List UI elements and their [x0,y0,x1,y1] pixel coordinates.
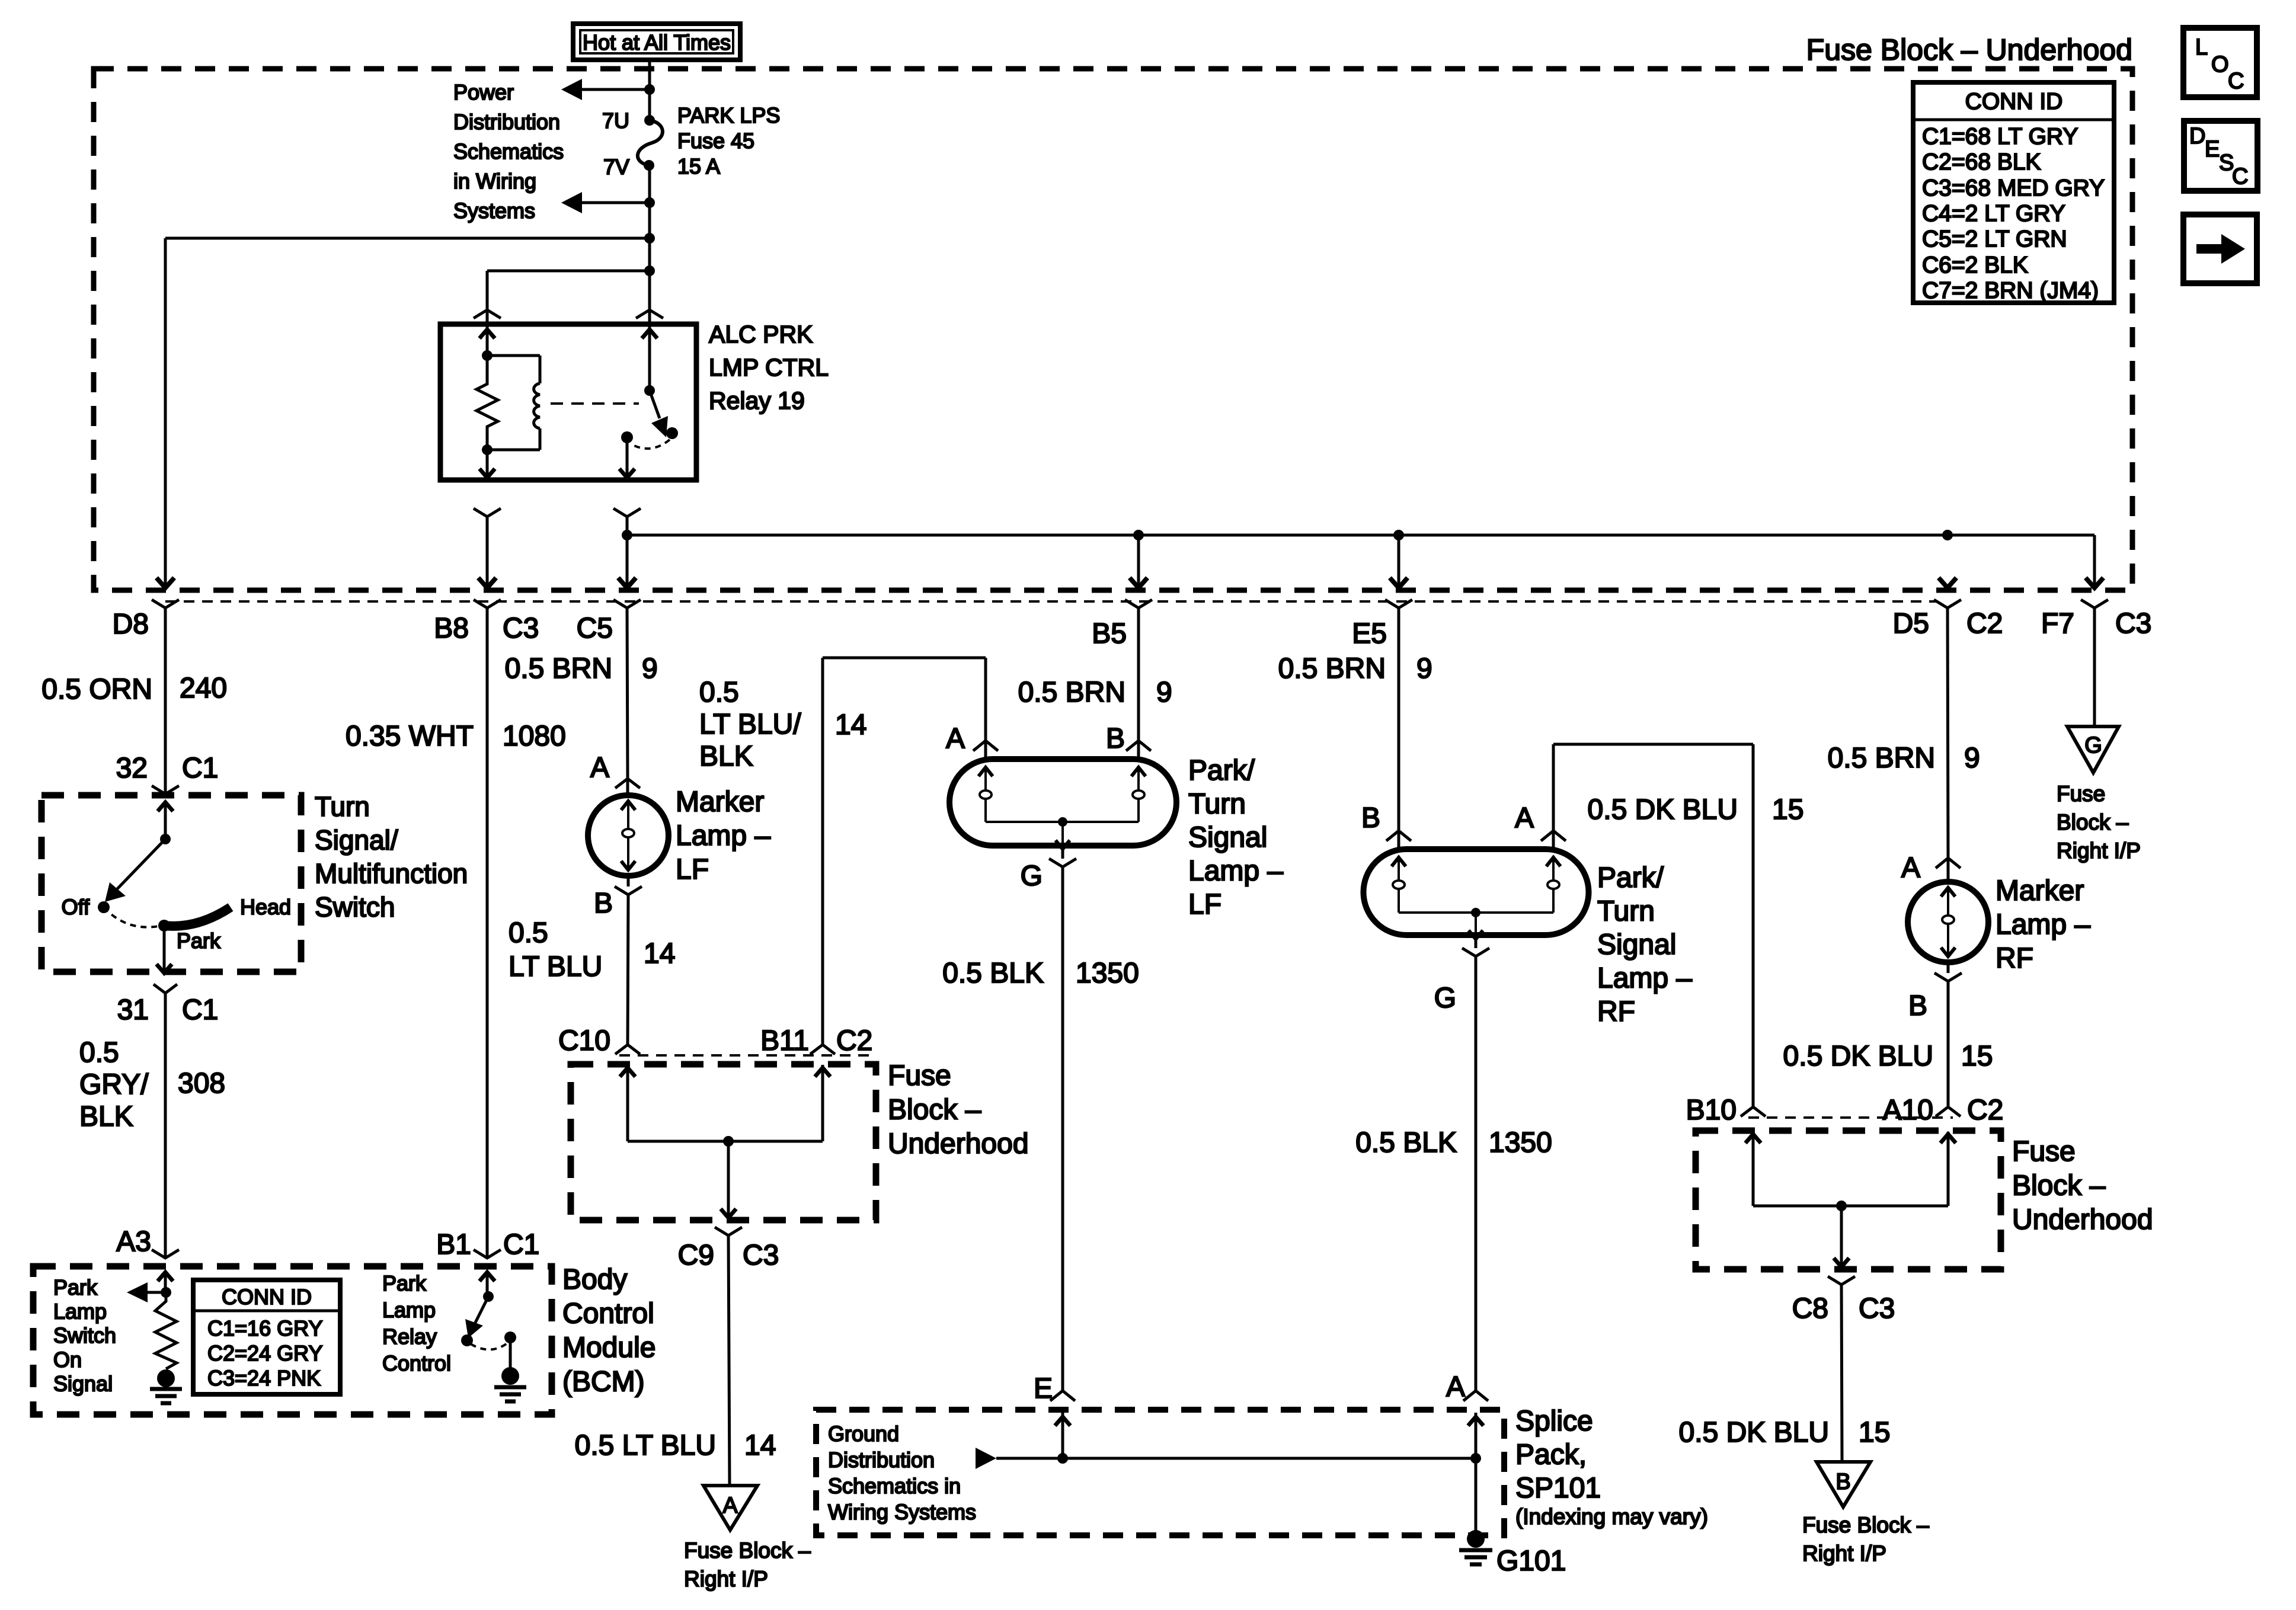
svg-text:C2: C2 [1967,1094,2003,1126]
conn id table (underhood) box [1913,82,2114,303]
contact arc - Park-Head (thick) [164,907,231,926]
svg-text:Lamp –: Lamp – [1188,856,1283,887]
svg-text:Right I/P: Right I/P [684,1567,768,1591]
pin arrow - splice A (up, open) [1468,1417,1483,1426]
svg-text:C2: C2 [1966,608,2003,639]
wire - 0.5 LT BLU 14 (marker LF to C10) [628,895,628,1045]
svg-text:C2=24 GRY: C2=24 GRY [207,1341,322,1365]
wire - park/turn RF A stub [1552,831,1555,850]
turn signal / multifunction switch dashed box [41,795,301,972]
svg-text:C3: C3 [503,613,539,644]
border arrow - E5 (down, open) [1390,578,1408,588]
relay ALC PRK LMP CTRL box [440,324,696,480]
connector chevron - splice pin A [1463,1391,1488,1401]
pin arrow - switch feed (up, open) [158,802,173,811]
svg-text:Lamp –: Lamp – [676,820,770,852]
svg-text:Module: Module [562,1332,655,1363]
node - bus at B5 wire [1133,530,1144,540]
node - bus at E5 wire [1393,530,1404,540]
svg-text:0.5 BRN: 0.5 BRN [505,653,612,684]
node - relay coil branch junction [644,265,655,276]
svg-text:C1: C1 [182,994,218,1026]
svg-text:Fuse Block –: Fuse Block – [1802,1513,1929,1537]
svg-text:C1=68 LT GRY: C1=68 LT GRY [1922,124,2078,149]
connector chevron - below relay left [474,508,501,517]
body control module dashed box [33,1266,552,1414]
svg-text:0.5: 0.5 [699,677,739,708]
svg-text:Power: Power [453,80,514,104]
svg-text:PARK LPS: PARK LPS [677,103,780,127]
wire - horizontal branch to D8 drop [165,237,650,240]
svg-text:C1: C1 [182,753,218,784]
svg-text:0.5 BLK: 0.5 BLK [1355,1127,1457,1158]
svg-text:C3: C3 [743,1240,779,1271]
connector chevron - BCM pin A3 [152,1250,179,1258]
connector chevron - B8 below border [474,600,501,608]
ground - park lamp relay control ground [501,1367,519,1385]
border arrow - D5 (down, open) [1939,578,1956,588]
wire - coil branch down [539,356,542,383]
svg-text:E: E [2205,137,2220,162]
svg-text:0.5 DK BLU: 0.5 DK BLU [1588,794,1738,825]
svg-text:0.5 LT BLU: 0.5 LT BLU [575,1430,716,1461]
connector chevron - marker LF pin A [615,779,640,788]
svg-text:Fuse 45: Fuse 45 [677,129,754,153]
svg-text:14: 14 [644,938,675,969]
svg-text:GRY/: GRY/ [79,1069,149,1100]
svg-text:C2=68 BLK: C2=68 BLK [1922,149,2041,175]
svg-text:F7: F7 [2041,608,2074,639]
svg-text:Marker: Marker [1996,875,2084,907]
svg-text:B8: B8 [434,613,469,644]
svg-text:Schematics in: Schematics in [828,1474,961,1498]
svg-text:Wiring Systems: Wiring Systems [828,1500,976,1524]
svg-text:A: A [946,723,965,754]
svg-text:Hot at All Times: Hot at All Times [583,30,731,55]
wire - 0.5 LT BLU 14 to fuse block right IP [728,1235,730,1484]
svg-text:E: E [1034,1373,1053,1404]
svg-text:0.5 DK BLU: 0.5 DK BLU [1783,1041,1933,1072]
connector chevron - splice pin E [1050,1391,1075,1401]
svg-text:B11: B11 [760,1025,809,1057]
filament - marker RF [1941,888,1955,897]
park/turn signal lamp LF outline [949,759,1176,846]
wire - B5 drop in block [1137,535,1140,585]
connector chevron - park/turn LF pin G [1049,859,1076,867]
wire - 0.5 DK BLU 15 (marker RF to A10) [1947,981,1950,1107]
ground - G101 [1467,1530,1485,1548]
splice pack SP101 dashed box [816,1410,1504,1535]
border arrow - C5 (down, open) [618,578,636,588]
svg-text:Relay: Relay [382,1324,437,1349]
pin arrow - relay switch pin (up, open) [642,329,657,338]
svg-text:Lamp –: Lamp – [1597,963,1692,994]
switch arm - relay contact arm [650,391,660,418]
wire - 0.5 BRN 9 (C5) [627,608,628,779]
svg-text:A: A [1446,1371,1465,1403]
svg-text:Relay 19: Relay 19 [709,387,805,414]
svg-text:Distribution: Distribution [453,110,560,134]
conn id table (BCM) header line [193,1310,340,1313]
svg-text:B10: B10 [1686,1094,1737,1126]
svg-text:14: 14 [835,709,866,741]
svg-text:15: 15 [1859,1417,1890,1448]
dashed arc - driver contact throw [471,1343,508,1350]
connector chevron - park/turn RF pin A [1541,831,1566,841]
svg-text:Park/: Park/ [1597,862,1664,894]
filament - park/turn RF right [1546,857,1560,866]
svg-text:Fuse: Fuse [2057,782,2105,806]
svg-text:E5: E5 [1352,618,1387,649]
svg-text:Distribution: Distribution [828,1448,935,1472]
svg-text:15 A: 15 A [677,154,720,178]
wire - B1 inside BCM [486,1272,489,1297]
dashed arc - relay contact throw [631,440,670,449]
svg-text:A: A [590,752,609,783]
svg-text:Block –: Block – [2057,810,2129,834]
offpage triangle A (fuse block right IP) [703,1486,757,1530]
svg-text:Lamp –: Lamp – [1996,909,2090,940]
svg-text:A10: A10 [1883,1094,1933,1126]
arrow - park lamp switch on signal (left, solid) [127,1282,148,1302]
svg-text:B: B [594,888,613,919]
legend box LOC [2183,28,2257,97]
filament - park/turn LF right [1131,767,1146,776]
node - relay contact left (output) [621,431,633,443]
svg-text:C: C [2228,69,2244,94]
connector chevron - switch pin 31 [154,984,177,993]
connector chevron - relay switch pin (top right) [636,310,663,318]
wire - internal signal arrow shaft [137,1291,166,1294]
wire - splice A inside [1475,1413,1478,1458]
marker lamp LF circle [588,795,669,876]
connector chevron - F7 below border [2081,600,2108,608]
svg-text:Park: Park [53,1275,98,1299]
pin arrow - C10 entry (up, open) [620,1068,635,1077]
svg-text:C1=16 GRY: C1=16 GRY [207,1316,322,1340]
svg-text:ALC PRK: ALC PRK [709,321,813,348]
node - driver contact left [461,1334,473,1346]
ground - BCM park lamp switch ground [157,1369,175,1387]
Hot at All Times box [573,24,740,60]
svg-text:D5: D5 [1893,608,1929,639]
wire - 0.5 LT BLU/BLK 14 riser [984,658,987,741]
svg-text:Pack,: Pack, [1515,1439,1587,1471]
svg-text:C6=2 BLK: C6=2 BLK [1922,252,2028,278]
svg-text:9: 9 [1416,653,1432,684]
wire - F7 to fuse block right IP [2093,608,2096,726]
svg-text:CONN ID: CONN ID [222,1285,312,1309]
wire - marker LF A stub [626,779,629,796]
fuse F45 PARK LPS symbol (S-curve) [638,120,663,165]
wire - middle block internal join [628,1140,823,1143]
fuse block underhood (right) dashed box [1696,1131,2001,1269]
svg-text:Park: Park [382,1271,427,1295]
connector row thin dashed line (connector C2) [165,600,1938,603]
pin arrow - A10 entry (up, open) [1940,1134,1956,1143]
svg-text:Schematics: Schematics [453,139,564,164]
svg-text:C8: C8 [1792,1293,1828,1324]
node - bus at D5 wire [1942,530,1953,540]
wire - park/turn RF internal common [1399,911,1553,914]
svg-text:G: G [1434,982,1456,1014]
svg-text:C7=2 BRN (JM4): C7=2 BRN (JM4) [1922,278,2099,303]
connector chevron - B11 [810,1045,835,1054]
svg-text:Signal: Signal [53,1371,113,1395]
node - D8 branch junction [644,233,655,244]
node - switch contact Off [98,901,110,913]
svg-text:C3: C3 [2115,608,2151,639]
wire - park/turn LF B stub [1137,741,1140,760]
node - power distribution feed 1 [644,84,655,95]
connector chevron - marker LF pin B [615,886,642,895]
wire - 0.5 LT BLU/BLK 14 down run [821,658,824,1045]
svg-text:Signal: Signal [1597,929,1676,961]
wire - marker RF A stub [1947,858,1950,883]
connector chevron - A10 [1936,1107,1961,1116]
connector chevron - park/turn RF pin B [1386,831,1411,841]
svg-text:Block –: Block – [2012,1170,2106,1202]
svg-text:LT BLU: LT BLU [509,951,602,982]
border arrow - D8 (down, open) [156,578,174,588]
svg-text:14: 14 [744,1430,776,1461]
svg-text:CONN ID: CONN ID [1965,89,2063,114]
wire - arrow to power distribution 1 [581,88,650,91]
svg-text:Fuse Block – Underhood: Fuse Block – Underhood [1806,33,2132,66]
svg-text:O: O [2211,52,2229,77]
svg-text:7V: 7V [603,155,629,179]
wire - relay coil pin drop [486,271,489,324]
switch arm - park lamp relay control driver [473,1297,488,1327]
svg-text:Systems: Systems [453,199,535,223]
svg-text:Control: Control [562,1298,654,1330]
arrow - to power distribution schematics (left, solid) 2 [561,192,582,213]
pin arrow - relay output (down, open) [619,469,635,478]
legend box DESC [2184,121,2257,191]
node - bus at C5 wire [622,530,632,540]
svg-text:240: 240 [180,673,227,704]
wire - relay switch feed [648,271,651,391]
node - switch contact Park [158,920,170,932]
pin arrow - relay coil out (down, open) [479,469,495,478]
svg-text:0.5 BRN: 0.5 BRN [1278,653,1386,684]
wire - park/turn RF B stub [1398,831,1400,850]
wire - park lamp feed bus [627,534,2094,537]
svg-text:B1: B1 [436,1229,471,1260]
wire - F7 drop in block [2093,535,2096,585]
svg-text:9: 9 [642,653,658,684]
connector chevron - C8 [1828,1276,1855,1285]
svg-text:0.5: 0.5 [509,917,548,949]
svg-text:Ground: Ground [828,1422,899,1446]
svg-text:308: 308 [178,1068,225,1099]
svg-text:Lamp: Lamp [53,1299,107,1324]
wire - D8 drop inside fuse block [164,238,167,585]
node - driver contact right [504,1331,516,1343]
wire - A3 inside BCM [164,1272,167,1292]
wire - relay output stub [626,437,629,478]
wire - 0.5 BLK 1350 (LF ground) [1061,867,1064,1391]
svg-text:L: L [2195,35,2208,60]
pin arrow - park/turn LF ground (down, open) [1061,822,1064,849]
svg-text:D8: D8 [113,609,149,640]
svg-text:RF: RF [1597,996,1635,1028]
wire - E5 drop in block [1398,535,1400,585]
wire - 0.5 DK BLU 15 to fuse block right IP [1841,1285,1842,1461]
filament - park/turn RF left [1392,857,1406,866]
svg-text:32: 32 [116,753,148,784]
thin dashed connector line (middle fuse block) [619,1054,875,1057]
svg-text:(Indexing may vary): (Indexing may vary) [1515,1505,1708,1529]
svg-text:A: A [722,1493,738,1518]
svg-text:Underhood: Underhood [2012,1204,2153,1235]
svg-text:G: G [2084,733,2102,758]
connector chevron - park/turn LF pin B [1126,741,1151,751]
border arrow - B8 (down, open) [478,578,496,588]
wire - 0.5 DK BLU 15 top run [1553,743,1753,746]
wire - right block B10 leg [1752,1132,1755,1206]
wire - B8/B1 0.35 WHT 1080 circuit [486,608,489,1259]
wire - middle block output [727,1141,730,1217]
node - park lamp switch signal node [161,1287,171,1298]
connector chevron - park/turn LF pin A [973,741,998,751]
svg-text:B: B [1106,723,1125,754]
svg-text:LT BLU/: LT BLU/ [699,709,801,740]
svg-text:Fuse Block –: Fuse Block – [684,1538,811,1563]
svg-text:0.5 BLK: 0.5 BLK [942,958,1044,989]
svg-text:Fuse: Fuse [2012,1136,2076,1167]
connector chevron - E5 below border [1385,600,1412,608]
svg-text:Body: Body [562,1264,627,1295]
svg-text:Off: Off [62,895,90,919]
wire - switch feed inside [164,804,167,839]
svg-text:LMP CTRL: LMP CTRL [709,354,829,381]
svg-text:Turn: Turn [315,791,370,822]
arrow - driver arm head (solid) [465,1319,483,1338]
fuse block underhood (middle) dashed box [571,1064,876,1220]
switch arm - headlamp switch wiper [116,839,165,891]
node - right block junction [1836,1201,1847,1211]
wire - park/turn LF A stub [984,741,987,760]
svg-text:Splice: Splice [1515,1406,1593,1437]
svg-text:B: B [1361,802,1380,834]
svg-text:0.5 BRN: 0.5 BRN [1018,677,1125,708]
fuse block - underhood dashed enclosure [94,69,2132,590]
svg-text:Right I/P: Right I/P [2057,838,2141,863]
wire - 0.5 LT BLU/BLK 14 top run [823,657,986,660]
connector chevron - BCM pin B1 [474,1250,501,1258]
marker lamp RF circle [1908,882,1988,962]
svg-text:0.5 ORN: 0.5 ORN [41,674,152,705]
legend box arrow [2183,215,2257,283]
wire - B8 feed relay to border [486,517,489,585]
svg-text:G101: G101 [1496,1545,1566,1577]
svg-text:Switch: Switch [315,892,395,923]
connector chevron - relay coil pin (top left) [474,310,501,318]
svg-text:1080: 1080 [503,721,566,752]
svg-text:C3=68 MED GRY: C3=68 MED GRY [1922,175,2105,201]
filament - park/turn LF left [978,767,993,776]
border arrow - B5 (down, open) [1130,578,1147,588]
node - park/turn LF common [1058,817,1067,827]
svg-text:31: 31 [117,994,149,1026]
svg-text:C3: C3 [1859,1293,1895,1324]
resistor - relay suppression resistor [477,356,498,450]
svg-text:SP101: SP101 [1515,1473,1601,1504]
wire - 0.5 BRN 9 (B5) [1137,608,1140,741]
svg-text:Fuse: Fuse [888,1060,951,1092]
wire - marker RF B stub [1947,962,1950,973]
node - splice at E [1057,1453,1068,1464]
svg-text:C10: C10 [558,1025,610,1057]
svg-text:Marker: Marker [676,786,764,818]
wire - right block output [1840,1206,1843,1266]
wire - park/turn LF G stub [1061,846,1064,859]
svg-text:in Wiring: in Wiring [453,169,536,193]
node - relay switch pivot [644,385,655,396]
wire - coil branch top [487,354,540,357]
filament - marker LF [621,801,635,810]
svg-text:Signal/: Signal/ [315,825,398,856]
wire - 0.5 DK BLU 15 riser [1552,744,1555,831]
svg-text:1350: 1350 [1489,1127,1552,1158]
svg-text:C3=24 PNK: C3=24 PNK [207,1366,321,1390]
svg-text:1350: 1350 [1076,958,1139,989]
wire - relay coil out stub [486,450,489,478]
pin arrow - BCM B1 (up, open) [479,1272,495,1281]
wire - 0.5 ORN 240 circuit [164,608,167,794]
wire - relay output to border [626,517,629,585]
thin dashed connector line (right fuse block) [1748,1116,1953,1119]
svg-text:Signal: Signal [1188,822,1267,853]
pin arrow - splice E (up, open) [1055,1417,1070,1426]
inductor - relay coil winding [534,383,540,428]
svg-text:15: 15 [1961,1041,1993,1072]
svg-text:B5: B5 [1092,618,1127,649]
svg-text:Head: Head [240,895,291,919]
svg-text:Turn: Turn [1597,896,1655,927]
svg-text:C9: C9 [678,1240,714,1271]
wire - marker LF B stub [627,876,630,886]
svg-text:A: A [1515,802,1534,834]
connector chevron - C9 [715,1227,742,1235]
svg-text:7U: 7U [602,108,629,133]
node - power distribution feed 2 [644,197,655,208]
svg-text:Lamp: Lamp [382,1298,436,1322]
arrow - switch arm head (solid) [105,882,126,902]
wire - 0.5 BLK 1350 (RF ground) [1475,956,1478,1391]
pin arrow - BCM A3 (up, open) [158,1272,173,1281]
svg-text:Right I/P: Right I/P [1802,1541,1886,1566]
connector chevron - below relay right [613,508,641,517]
svg-text:9: 9 [1964,742,1980,774]
node - splice at A [1470,1453,1481,1464]
svg-text:LF: LF [1188,889,1221,920]
svg-text:B: B [1908,990,1927,1022]
svg-text:(BCM): (BCM) [562,1366,645,1398]
pin arrow - C8 exit (down, open) [1834,1258,1849,1267]
offpage triangle B (fuse block right IP) [1817,1462,1870,1507]
svg-text:B: B [1835,1470,1850,1494]
svg-text:G: G [1021,860,1043,892]
pin arrow - B11 entry (up, open) [815,1068,830,1077]
conn id table (BCM) box [193,1280,340,1394]
node - relay contact right [666,427,678,439]
svg-text:A: A [1901,852,1920,884]
node - fuse terminal 7V [644,160,654,171]
wire - battery trunk below fuse [648,165,651,324]
dashed link - relay actuation [551,402,639,405]
